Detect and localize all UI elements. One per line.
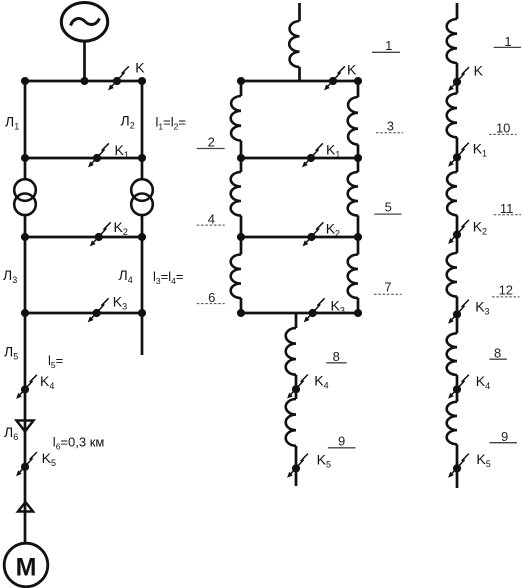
svg-text:K5: K5 (42, 450, 56, 468)
node (354, 309, 362, 317)
transformer T1 (14, 179, 36, 215)
svg-text:K: K (474, 63, 484, 79)
svg-text:Л2: Л2 (121, 113, 135, 131)
svg-text:K5: K5 (317, 452, 331, 470)
svg-text:l3=l4=: l3=l4= (153, 269, 183, 286)
svg-text:Л1: Л1 (5, 114, 19, 132)
node (237, 154, 245, 162)
fault point K3 (right) (448, 300, 469, 324)
inductor 5 (348, 172, 358, 216)
inductor 11 (447, 172, 457, 215)
node bus2-right (138, 154, 146, 162)
wire (298, 67, 301, 81)
fault point K (left diagram) (108, 66, 129, 90)
wire (456, 137, 459, 172)
svg-text:M: M (16, 554, 37, 582)
bus 1 (middle diagram) (240, 80, 360, 83)
wire (456, 444, 459, 488)
inductor 1 (right) (447, 19, 457, 63)
svg-text:K2: K2 (326, 221, 340, 239)
node bus4-left (21, 309, 29, 317)
fault point K5 (right) (448, 454, 469, 478)
node bus1-source (80, 77, 88, 85)
svg-text:12: 12 (499, 283, 513, 298)
svg-text:8: 8 (494, 346, 501, 361)
inductor 4 (231, 172, 241, 216)
svg-text:K: K (347, 62, 357, 78)
node (237, 309, 245, 317)
svg-text:10: 10 (496, 120, 510, 135)
wire (83, 40, 86, 81)
svg-text:5: 5 (385, 200, 392, 215)
fault point K5 (middle) (287, 454, 308, 478)
wire (456, 3, 459, 19)
wire (357, 81, 360, 97)
inductor 2 (231, 96, 241, 141)
wire (298, 3, 301, 21)
fault point K5 (left diagram) (16, 452, 37, 476)
node bus1-left (21, 77, 29, 85)
inductor 8 (middle) (286, 328, 296, 375)
cable termination (down triangle) (17, 421, 34, 432)
fault point K1 (left diagram) (88, 143, 109, 167)
fault point K2 (middle) (303, 222, 324, 246)
svg-text:K3: K3 (475, 299, 489, 317)
svg-text:1: 1 (385, 38, 392, 53)
node (354, 233, 362, 241)
node (237, 233, 245, 241)
svg-text:4: 4 (208, 212, 215, 227)
bus 2 (left diagram) (24, 157, 144, 160)
wire (240, 216, 243, 238)
inductor 7 (348, 255, 358, 299)
svg-text:K4: K4 (476, 373, 490, 391)
bus 1 (left diagram) (24, 80, 144, 83)
node (354, 154, 362, 162)
svg-text:l1=l2=: l1=l2= (156, 115, 186, 132)
svg-text:K4: K4 (40, 373, 54, 391)
line L1 wire (24, 81, 27, 158)
svg-text:K3: K3 (331, 298, 345, 316)
bus 3 (left diagram) (24, 236, 144, 239)
fault point K4 (middle) (287, 375, 308, 399)
wire (24, 215, 27, 237)
wire (456, 215, 459, 253)
svg-text:6: 6 (208, 290, 215, 305)
fault point K1 (right) (448, 143, 469, 167)
node bus4-right (138, 309, 146, 317)
wire (456, 375, 459, 402)
svg-text:3: 3 (387, 119, 394, 134)
svg-text:11: 11 (500, 201, 514, 216)
inductor 10 (447, 94, 457, 138)
inductor 8 (right) (447, 333, 457, 375)
inductor 9 (middle) (286, 399, 296, 446)
transformer T2 (131, 179, 153, 215)
wire (357, 216, 360, 238)
line L5 wire down to motor (24, 313, 27, 543)
svg-text:K2: K2 (473, 219, 487, 237)
wire L4 stub (141, 313, 144, 355)
wire (240, 298, 243, 313)
node bus2-left (21, 154, 29, 162)
cable termination (up triangle) (18, 502, 33, 512)
wire (357, 237, 360, 255)
wire (240, 158, 243, 172)
svg-text:Л5: Л5 (4, 344, 18, 362)
inductor 6 (231, 255, 241, 299)
line L2 wire (141, 81, 144, 158)
svg-text:K2: K2 (114, 219, 128, 237)
fault point K (middle) (324, 66, 345, 90)
svg-text:8: 8 (333, 349, 340, 364)
svg-text:Л6: Л6 (4, 424, 18, 442)
svg-text:K1: K1 (326, 142, 340, 160)
wire (357, 158, 360, 172)
svg-text:9: 9 (501, 429, 508, 444)
node (237, 77, 245, 85)
wire (456, 297, 459, 334)
fault point K1 (middle) (302, 143, 323, 167)
wire (357, 298, 360, 313)
generator G1 (AC source) (61, 3, 107, 42)
line L3 wire (24, 237, 27, 313)
wire (24, 158, 27, 180)
fault point K2 (right) (448, 220, 469, 244)
inductor 1 (middle) (289, 21, 299, 67)
fault point K4 (left diagram) (16, 375, 37, 399)
node bus3-left (21, 233, 29, 241)
svg-text:K1: K1 (473, 141, 487, 159)
line L4 wire (141, 237, 144, 313)
bus 4 (left diagram) (24, 312, 144, 315)
node bus3-right (138, 233, 146, 241)
inductor 3 (348, 97, 358, 145)
svg-text:Л3: Л3 (3, 267, 17, 285)
wire (141, 215, 144, 237)
wire (295, 375, 298, 399)
svg-text:K3: K3 (113, 294, 127, 312)
fault point K2 (left diagram) (90, 222, 111, 246)
wire (141, 158, 144, 180)
wire (240, 81, 243, 96)
svg-text:l5=: l5= (48, 353, 63, 370)
wire (456, 63, 459, 94)
bus 4 (middle diagram) (240, 312, 360, 315)
svg-text:9: 9 (338, 434, 345, 449)
node bus1-right (138, 77, 146, 85)
wire (240, 141, 243, 159)
wire (295, 446, 298, 486)
wire (240, 237, 243, 255)
wire (295, 313, 298, 328)
bus 3 (middle diagram) (240, 236, 360, 239)
wire (357, 145, 360, 159)
svg-text:l6=0,3 км: l6=0,3 км (53, 435, 105, 452)
svg-text:7: 7 (384, 280, 391, 295)
svg-text:K1: K1 (115, 142, 129, 160)
node (354, 77, 362, 85)
fault point K4 (right) (448, 375, 469, 399)
fault point K3 (middle) (304, 298, 325, 322)
svg-text:K4: K4 (314, 373, 328, 391)
fault point K (right) (448, 67, 469, 91)
svg-text:K5: K5 (476, 451, 490, 469)
bus 2 (middle diagram) (240, 157, 360, 160)
fault point K3 (left diagram) (88, 298, 109, 322)
inductor 12 (447, 253, 457, 297)
motor M (4, 543, 48, 587)
svg-text:K: K (135, 60, 145, 76)
svg-text:Л4: Л4 (119, 267, 133, 285)
inductor 9 (right) (447, 402, 457, 445)
svg-text:2: 2 (208, 135, 215, 150)
